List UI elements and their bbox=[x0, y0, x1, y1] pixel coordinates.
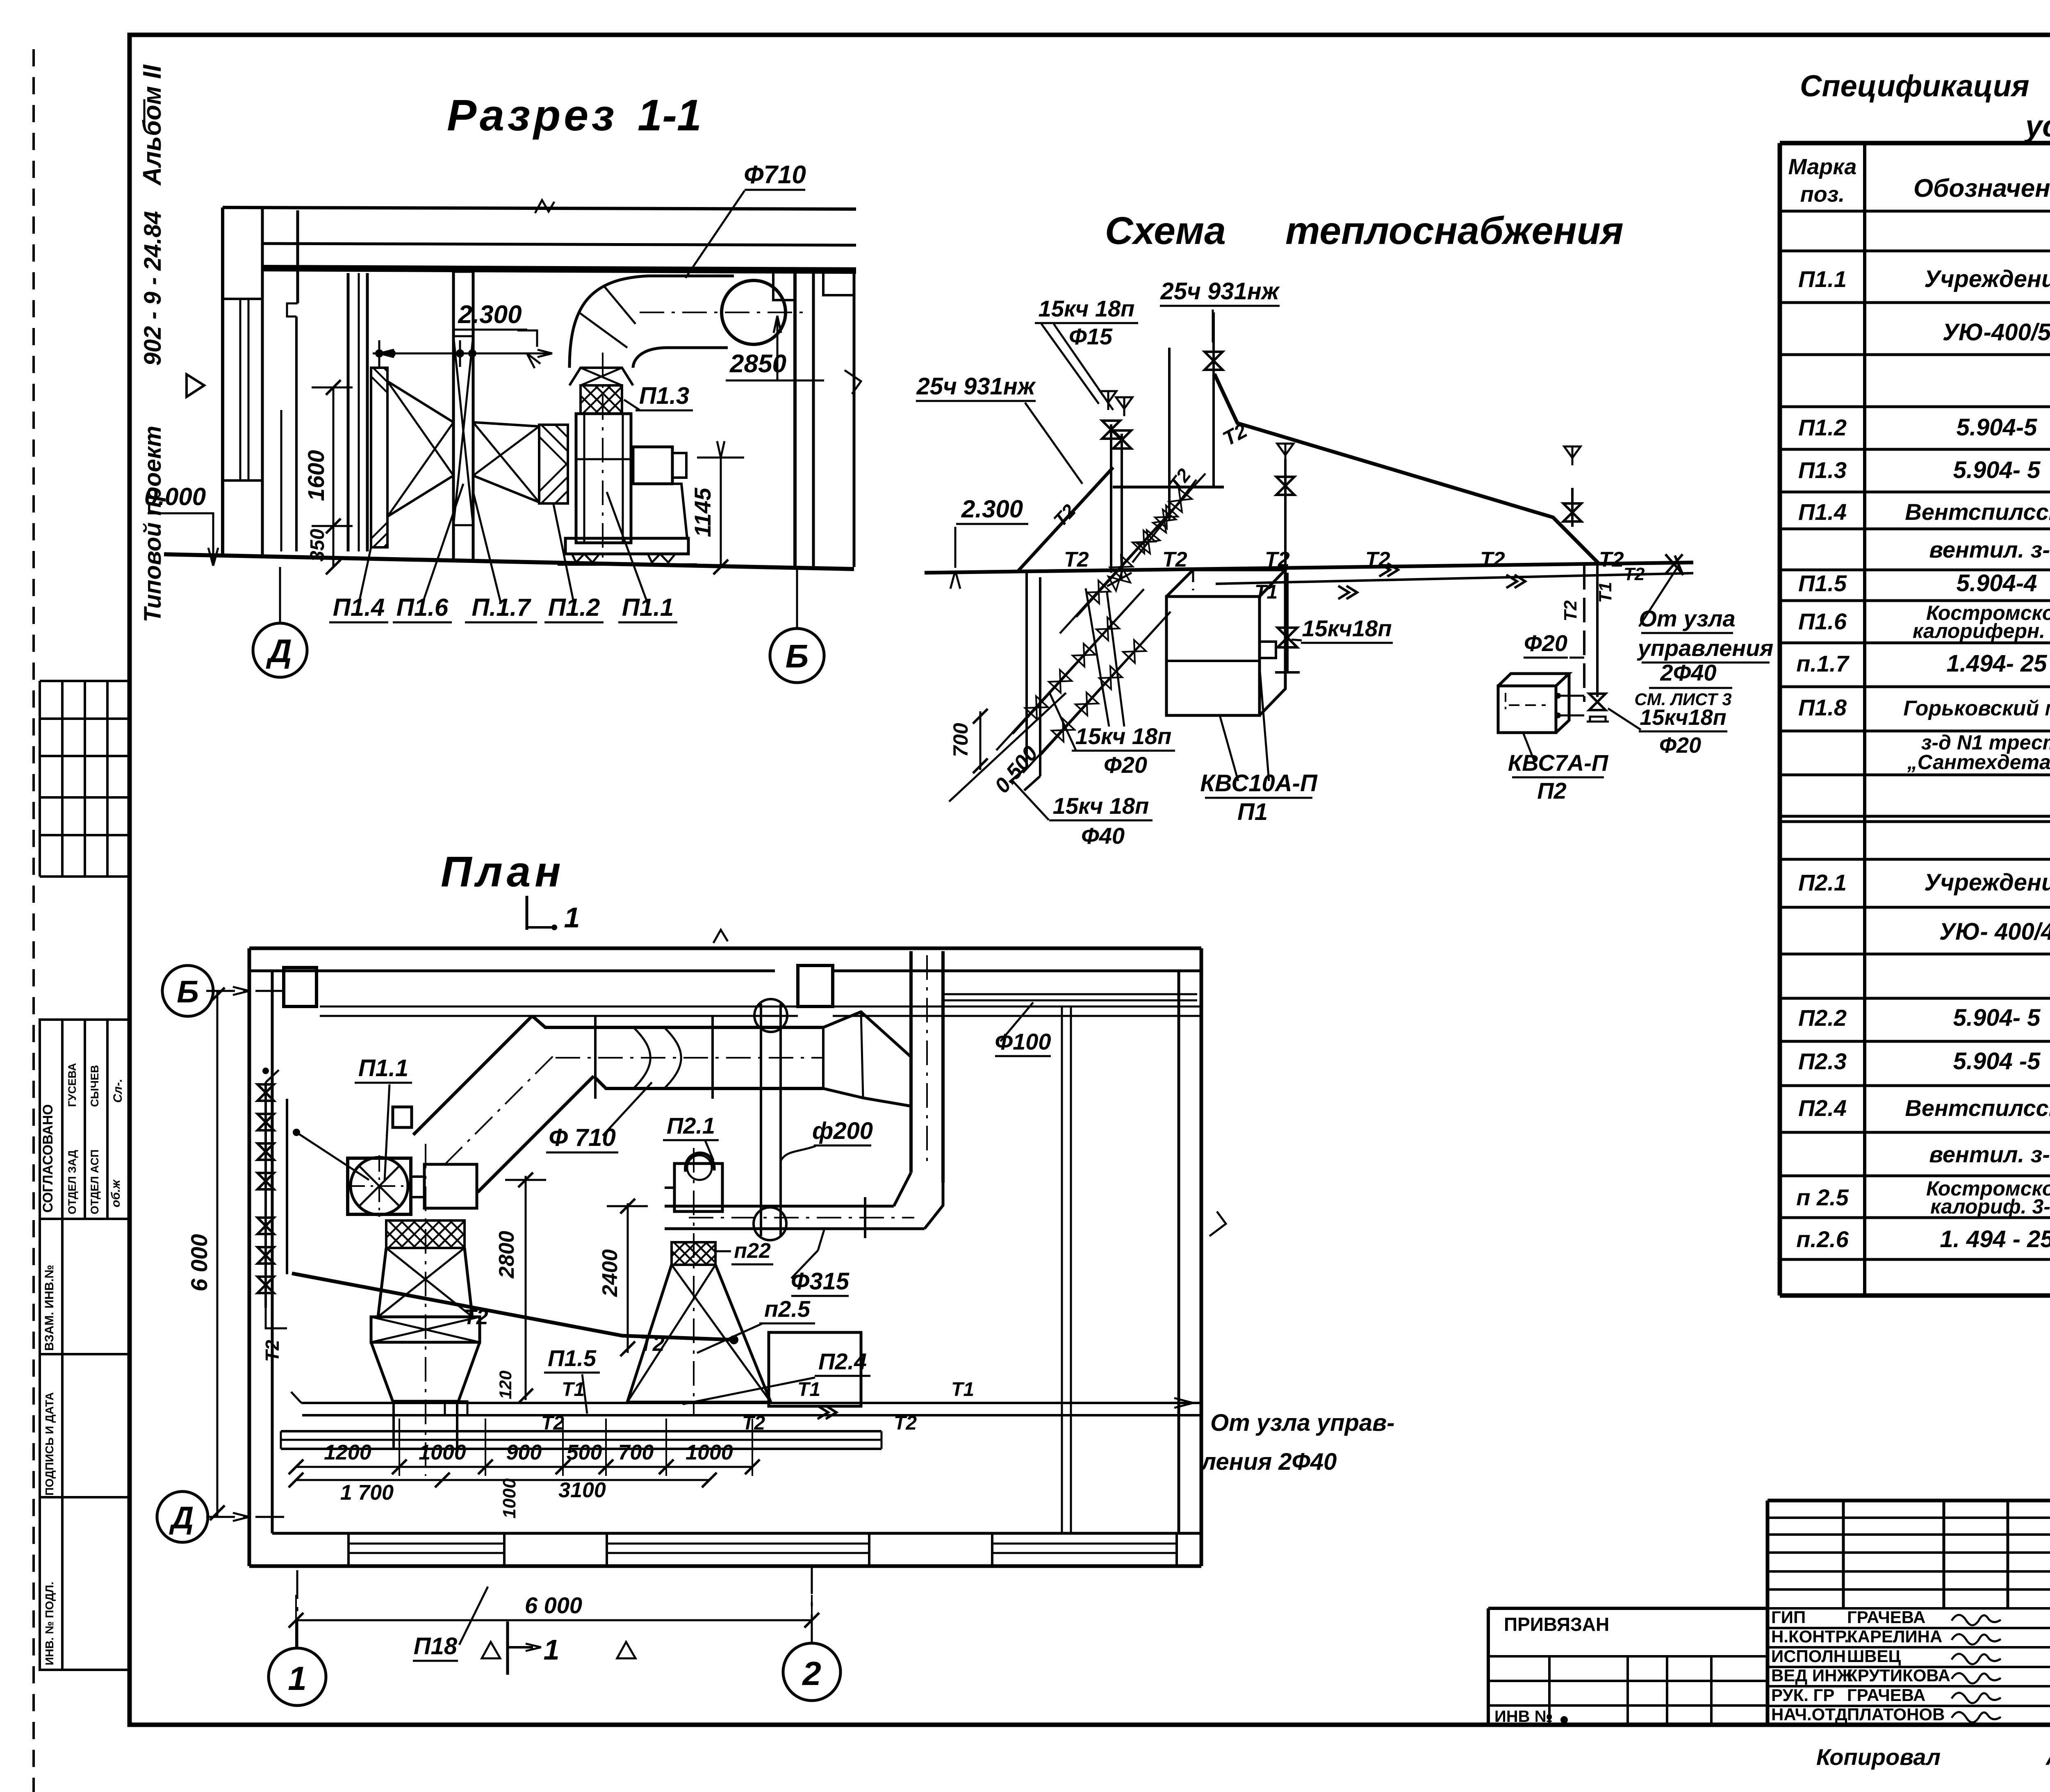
svg-text:Горьковский мех.: Горьковский мех. bbox=[1903, 697, 2050, 720]
svg-text:УЮ-400/5: УЮ-400/5 bbox=[1943, 319, 2050, 346]
signature squiggles title block bbox=[1952, 1615, 2001, 1625]
dimension 1145 bbox=[720, 458, 722, 567]
svg-text:П1.8: П1.8 bbox=[1798, 694, 1847, 720]
valve drop right of box bbox=[1286, 573, 1289, 672]
svg-text:Учреждение: Учреждение bbox=[1924, 266, 2050, 292]
title block signature rows bbox=[1768, 1607, 2050, 1610]
svg-text:калориферн. з-д: калориферн. з-д bbox=[1913, 619, 2050, 642]
svg-text:ИНВ. № ПОДЛ.: ИНВ. № ПОДЛ. bbox=[43, 1582, 56, 1665]
svg-text:Т2: Т2 bbox=[1365, 548, 1390, 572]
svg-text:П1.2: П1.2 bbox=[548, 594, 600, 621]
left pipe risers to mains bbox=[291, 1392, 301, 1403]
svg-text:Т1: Т1 bbox=[1255, 581, 1278, 603]
diagonal T2 from main to riser pair bbox=[1017, 467, 1113, 572]
svg-text:п 2.5: п 2.5 bbox=[1796, 1184, 1849, 1210]
svg-text:Ф40: Ф40 bbox=[1081, 823, 1125, 849]
svg-text:Ф20: Ф20 bbox=[1659, 733, 1701, 758]
left margin cell ИНВ № ПОДЛ bbox=[40, 1497, 130, 1670]
svg-text:Т2: Т2 bbox=[894, 1412, 917, 1434]
vertical dim 2400 bbox=[627, 1203, 629, 1353]
svg-text:П1.6: П1.6 bbox=[396, 594, 449, 621]
svg-text:ПОДПИСЬ И ДАТА: ПОДПИСЬ И ДАТА bbox=[43, 1392, 56, 1496]
wall grille box left П1.8 position bbox=[284, 968, 317, 1006]
П1 funnel lower narrowing bbox=[371, 1342, 393, 1401]
svg-text:п2.5: п2.5 bbox=[764, 1296, 811, 1322]
right end drop pair T2 T1 bbox=[1583, 565, 1585, 702]
svg-text:П1.4: П1.4 bbox=[1798, 499, 1847, 525]
svg-text:П1.3: П1.3 bbox=[639, 383, 689, 409]
vertical duct shaft bbox=[909, 951, 913, 1173]
fan П1.1 plan square with scroll circle bbox=[348, 1158, 411, 1214]
valve on drop with cap bbox=[1589, 694, 1606, 702]
svg-text:СЫЧЕВ: СЫЧЕВ bbox=[89, 1065, 101, 1107]
top wall break mark bbox=[713, 930, 728, 943]
svg-text:15кч18п: 15кч18п bbox=[1302, 615, 1392, 641]
svg-text:1600: 1600 bbox=[303, 450, 329, 501]
svg-text:902 - 9 - 24.84: 902 - 9 - 24.84 bbox=[139, 211, 166, 366]
svg-text:2.300: 2.300 bbox=[961, 495, 1023, 523]
left wall window verticals bbox=[239, 299, 241, 480]
П1 funnel bottom line bbox=[393, 1400, 458, 1403]
stub to pipes П1 bbox=[445, 1401, 467, 1415]
svg-text:Т2: Т2 bbox=[463, 1305, 488, 1329]
duct Ф315 horizontal П2 bbox=[665, 1205, 894, 1208]
plan right wall bbox=[1200, 948, 1203, 1566]
svg-text:Т2: Т2 bbox=[1064, 548, 1089, 572]
svg-text:Б: Б bbox=[786, 638, 809, 674]
svg-text:Т1: Т1 bbox=[1595, 582, 1615, 603]
svg-text:5.904- 5: 5.904- 5 bbox=[1953, 1004, 2041, 1031]
svg-text:КВС7А-П: КВС7А-П bbox=[1508, 750, 1609, 776]
svg-text:Ф710: Ф710 bbox=[744, 161, 806, 189]
svg-text:1-1: 1-1 bbox=[638, 90, 702, 140]
svg-text:П1.1: П1.1 bbox=[1798, 266, 1847, 292]
svg-text:П2.1: П2.1 bbox=[1798, 870, 1847, 895]
svg-text:ГРАЧЕВА: ГРАЧЕВА bbox=[1847, 1685, 1925, 1705]
П2.5 calorifer rect in plan bbox=[769, 1332, 861, 1406]
section mark 1 bottom bbox=[506, 1621, 509, 1675]
svg-text:Т1: Т1 bbox=[951, 1379, 974, 1400]
svg-text:Спецификация: Спецификация bbox=[1800, 69, 2029, 103]
sheet binding dashed edge line bbox=[32, 49, 35, 1792]
svg-text:П1.1: П1.1 bbox=[622, 594, 674, 621]
dimension chain upper bbox=[296, 1466, 752, 1468]
left margin cell ПОДПИСЬ И ДАТА bbox=[40, 1354, 130, 1497]
svg-text:1200: 1200 bbox=[324, 1441, 371, 1464]
diffuser cone between П1.4 and П1.7 with bracing bbox=[387, 381, 453, 422]
svg-text:700: 700 bbox=[618, 1441, 654, 1464]
svg-text:Вентспилсский: Вентспилсский bbox=[1905, 1095, 2050, 1121]
svg-text:об.ж: об.ж bbox=[109, 1179, 123, 1207]
leader lines to position labels below section bbox=[359, 547, 371, 604]
svg-text:1000: 1000 bbox=[419, 1441, 466, 1464]
svg-text:План: План bbox=[441, 848, 565, 896]
svg-text:Т2: Т2 bbox=[1049, 500, 1080, 531]
svg-text:ПЛАТОНОВ: ПЛАТОНОВ bbox=[1847, 1705, 1945, 1724]
svg-text:вентил. з-д: вентил. з-д bbox=[1929, 1141, 2050, 1167]
svg-text:„Сантехдеталь”: „Сантехдеталь” bbox=[1907, 751, 2050, 774]
elbow seam lines bbox=[605, 287, 635, 324]
svg-text:П2.4: П2.4 bbox=[1798, 1095, 1847, 1121]
duct centerline bbox=[640, 312, 808, 313]
fan motor bbox=[633, 447, 672, 484]
spec table grid bbox=[1780, 141, 2050, 146]
svg-text:ОТДЕЛ АСП: ОТДЕЛ АСП bbox=[89, 1150, 101, 1214]
svg-text:Антипова: Антипова bbox=[2045, 1744, 2050, 1770]
fan inlet flare to flexible П1.3 bbox=[569, 368, 633, 385]
svg-text:управления: управления bbox=[1637, 635, 1774, 661]
svg-text:2Ф40: 2Ф40 bbox=[1660, 660, 1716, 685]
svg-text:вентил. з-д: вентил. з-д bbox=[1929, 537, 2050, 562]
axis bubble А plan bbox=[157, 1491, 208, 1542]
svg-text:От узла: От узла bbox=[1639, 606, 1735, 631]
left wall second layer bbox=[296, 210, 299, 303]
overall dim 6000 bottom bbox=[296, 1619, 812, 1621]
pipe Ф100 thin at top right bbox=[943, 1000, 1197, 1002]
svg-text:П1: П1 bbox=[1237, 799, 1268, 825]
axis bubble 1 bbox=[269, 1648, 326, 1705]
vertical dim 2800 bbox=[525, 1176, 527, 1400]
riser 25ч931нж with valve bbox=[1212, 312, 1215, 487]
foundation channel band bbox=[281, 1430, 881, 1432]
left pilaster bbox=[347, 273, 350, 551]
svg-text:15кч 18п: 15кч 18п bbox=[1039, 296, 1135, 321]
left margin cell ВЗАМ ИНВ bbox=[40, 1219, 130, 1354]
right riser with vents bbox=[1571, 488, 1574, 527]
duct Ф710 horizontal run bbox=[532, 1016, 823, 1027]
svg-text:Б: Б bbox=[177, 975, 199, 1009]
duct arc seams bbox=[633, 1027, 650, 1088]
bowtie chain mid riser to branch bbox=[1132, 480, 1196, 562]
title block outer bbox=[1766, 1501, 1770, 1725]
vertical pipe pair right side bbox=[1061, 1006, 1063, 1533]
svg-text:Марка: Марка bbox=[1788, 155, 1857, 179]
duct centerline diagonal and horizontal bbox=[445, 1052, 558, 1164]
svg-text:ф200: ф200 bbox=[812, 1118, 873, 1144]
svg-text:Альбом II: Альбом II bbox=[138, 64, 166, 186]
svg-text:ВЗАМ. ИНВ.№: ВЗАМ. ИНВ.№ bbox=[43, 1265, 56, 1351]
vertical dim 6000 left bbox=[216, 991, 219, 1517]
duct segment ticks bbox=[594, 1017, 597, 1099]
svg-text:Т1: Т1 bbox=[562, 1379, 585, 1400]
upper small grid of title block bbox=[1768, 1516, 2050, 1519]
channel box below funnel П1 bbox=[392, 1401, 395, 1449]
svg-text:ИСПОЛН: ИСПОЛН bbox=[1771, 1646, 1846, 1666]
svg-text:ления 2Ф40: ления 2Ф40 bbox=[1200, 1448, 1337, 1475]
svg-text:Т2: Т2 bbox=[262, 1340, 283, 1362]
svg-text:Т2: Т2 bbox=[1219, 419, 1251, 450]
svg-text:Т2: Т2 bbox=[1162, 548, 1187, 572]
svg-text:1 700: 1 700 bbox=[340, 1481, 394, 1505]
svg-text:Ф20: Ф20 bbox=[1524, 630, 1567, 656]
fan centerline vertical bbox=[602, 353, 604, 558]
flow chevrons on mains bbox=[1379, 563, 1390, 576]
vertical line near box bbox=[1168, 348, 1171, 521]
svg-text:Ф20: Ф20 bbox=[1104, 752, 1147, 778]
bowtie chain lower A bbox=[996, 589, 1144, 750]
shaft elbow to Ф315 duct bbox=[894, 1173, 911, 1206]
riser 3 with valve bbox=[1284, 459, 1287, 573]
svg-text:6 000: 6 000 bbox=[525, 1592, 582, 1618]
svg-text:СОГЛАСОВАНО: СОГЛАСОВАНО bbox=[40, 1104, 56, 1213]
left margin approval block bbox=[40, 1020, 130, 1219]
svg-text:Н.КОНТР.: Н.КОНТР. bbox=[1771, 1627, 1849, 1646]
fan П2.1 plan bbox=[674, 1164, 722, 1211]
svg-text:калориф. 3-д: калориф. 3-д bbox=[1930, 1195, 2050, 1218]
svg-text:1.494- 25: 1.494- 25 bbox=[1946, 650, 2047, 677]
svg-text:поз.: поз. bbox=[1800, 182, 1845, 207]
svg-text:Ф15: Ф15 bbox=[1069, 323, 1113, 349]
svg-text:П2.2: П2.2 bbox=[1798, 1005, 1847, 1031]
svg-text:5.904- 5: 5.904- 5 bbox=[1953, 457, 2041, 483]
svg-text:25ч 931нж: 25ч 931нж bbox=[916, 373, 1036, 400]
schema pipe T1 horizontal bbox=[1216, 573, 1693, 584]
horizontal duct to circle end bbox=[648, 275, 734, 278]
svg-text:П2.4: П2.4 bbox=[818, 1348, 867, 1374]
svg-text:П1.5: П1.5 bbox=[1798, 570, 1847, 596]
svg-text:ОТДЕЛ ЗАД: ОТДЕЛ ЗАД bbox=[66, 1150, 78, 1214]
axis line А bbox=[206, 1516, 287, 1518]
section floor line bbox=[164, 554, 854, 569]
svg-text:Ф315: Ф315 bbox=[791, 1268, 850, 1295]
svg-text:КАРЕЛИНА: КАРЕЛИНА bbox=[1847, 1627, 1942, 1646]
right slab edge steps bbox=[823, 267, 854, 295]
plan left wall bbox=[248, 948, 251, 1566]
axis bubble А section bbox=[253, 623, 307, 677]
axis bubble Б section bbox=[770, 628, 824, 683]
svg-text:Вентспилсский: Вентспилсский bbox=[1905, 499, 2050, 525]
filter frame П1.7 vertical bbox=[453, 271, 473, 560]
thick T2 distribution diagonal to right bbox=[1214, 374, 1599, 564]
left riser pipes with valve string bbox=[264, 1082, 267, 1308]
svg-text:Учреждение: Учреждение bbox=[1924, 869, 2050, 896]
axis line Б bbox=[206, 990, 287, 992]
svg-text:2800: 2800 bbox=[495, 1231, 519, 1279]
ceiling break mark bbox=[535, 200, 554, 213]
plan bottom wall with windows bbox=[249, 1564, 1201, 1568]
svg-text:Т2: Т2 bbox=[1480, 548, 1505, 572]
svg-text:П18: П18 bbox=[414, 1633, 458, 1660]
duct end circle Ф710 bbox=[722, 280, 786, 344]
svg-text:п.2.6: п.2.6 bbox=[1796, 1226, 1849, 1252]
svg-text:П1.6: П1.6 bbox=[1798, 608, 1847, 634]
dim 700 and 0.500 bbox=[979, 711, 982, 770]
stub to wall pipes bbox=[266, 1308, 287, 1328]
svg-text:Схема: Схема bbox=[1105, 209, 1226, 253]
duct transition to vertical shaft bbox=[823, 1012, 911, 1057]
thick Т2 diagonal across plan bbox=[292, 1273, 734, 1340]
fan discharge elbow duct bbox=[569, 276, 648, 368]
svg-text:1000: 1000 bbox=[499, 1478, 519, 1519]
П1 unit centerline bbox=[425, 1144, 426, 1476]
svg-text:Т2: Т2 bbox=[1560, 600, 1581, 622]
fan П1.1 housing bbox=[576, 414, 631, 543]
bowtie chain lower B bbox=[1023, 612, 1171, 773]
leaders from Ф20 label up to chains bbox=[1086, 588, 1109, 726]
survey triangles bbox=[482, 1642, 500, 1658]
svg-text:5.904-5: 5.904-5 bbox=[1957, 414, 2037, 441]
svg-text:Обозначение: Обозначение bbox=[1913, 174, 2050, 203]
svg-text:1: 1 bbox=[544, 1634, 560, 1666]
riser ф200 vertical bbox=[760, 1004, 762, 1236]
svg-text:1. 494 - 25: 1. 494 - 25 bbox=[1940, 1226, 2050, 1252]
transition cone П1.7 to flexible insert with X bbox=[473, 422, 539, 426]
duct Ф710 diagonal from fan bbox=[413, 1016, 532, 1135]
КВС7А-П box П2 bbox=[1498, 686, 1556, 733]
svg-text:ГИП: ГИП bbox=[1771, 1608, 1806, 1627]
svg-text:Сл-.: Сл-. bbox=[111, 1079, 125, 1103]
svg-text:теплоснабжения: теплоснабжения bbox=[1285, 209, 1624, 253]
pipes along top wall bbox=[320, 1006, 798, 1008]
svg-text:Типовой проект: Типовой проект bbox=[139, 426, 166, 622]
privyazan box bbox=[1487, 1608, 1490, 1725]
wall break slash right bbox=[845, 370, 861, 394]
svg-text:РУК. ГР: РУК. ГР bbox=[1771, 1685, 1834, 1705]
svg-text:5.904-4: 5.904-4 bbox=[1957, 570, 2037, 597]
svg-text:П2.3: П2.3 bbox=[1798, 1048, 1847, 1074]
svg-text:От узла управ-: От узла управ- bbox=[1210, 1409, 1395, 1436]
svg-text:ШВЕЦ: ШВЕЦ bbox=[1847, 1646, 1901, 1666]
svg-text:П1.2: П1.2 bbox=[1798, 414, 1847, 440]
svg-text:ГРАЧЕВА: ГРАЧЕВА bbox=[1847, 1608, 1925, 1627]
section mark 1 top bbox=[526, 896, 528, 930]
axis bubble 2 bbox=[783, 1643, 840, 1701]
wall duct box at riser bbox=[798, 965, 833, 1006]
svg-text:КВС10А-П: КВС10А-П bbox=[1200, 770, 1318, 797]
small box at fan top left bbox=[393, 1107, 412, 1127]
svg-text:П1.5: П1.5 bbox=[548, 1345, 597, 1371]
svg-text:900: 900 bbox=[506, 1441, 542, 1464]
motor support stand bbox=[634, 484, 687, 538]
svg-text:700: 700 bbox=[949, 723, 972, 757]
vertical dimension 1600/350 bbox=[333, 387, 335, 567]
П1 funnel upper with X bbox=[378, 1248, 386, 1317]
svg-text:ГУСЕВА: ГУСЕВА bbox=[66, 1063, 78, 1107]
fan motor box plan bbox=[424, 1164, 477, 1208]
schema main pipe T2 horizontal bbox=[925, 562, 1693, 573]
svg-text:Д: Д bbox=[169, 1501, 194, 1535]
bottom wall window strips bbox=[348, 1543, 504, 1545]
riser pair with valves and vents bbox=[1110, 424, 1112, 573]
svg-text:2: 2 bbox=[802, 1655, 821, 1692]
upper dimension line with dots bbox=[373, 353, 552, 355]
plan top wall bbox=[249, 947, 1201, 950]
svg-text:2.300: 2.300 bbox=[458, 301, 522, 329]
fan base frame with vibro springs bbox=[565, 538, 688, 554]
svg-text:П.1.7: П.1.7 bbox=[471, 594, 531, 621]
svg-text:120: 120 bbox=[496, 1371, 515, 1399]
svg-text:3100: 3100 bbox=[558, 1478, 606, 1502]
П2 funnel with X brace bbox=[627, 1265, 672, 1402]
cluster vertical risers down bbox=[1025, 573, 1028, 767]
svg-text:1: 1 bbox=[288, 1660, 307, 1697]
П2.1 inlet stub bbox=[665, 1186, 674, 1189]
svg-text:П2: П2 bbox=[1537, 778, 1566, 804]
svg-text:1: 1 bbox=[564, 902, 580, 934]
svg-text:15кч 18п: 15кч 18п bbox=[1053, 793, 1149, 819]
thin mid line bbox=[280, 410, 282, 551]
svg-text:Д: Д bbox=[266, 633, 292, 669]
svg-text:Т2: Т2 bbox=[1624, 564, 1645, 584]
svg-text:Копировал: Копировал bbox=[1816, 1744, 1941, 1770]
chain small below main line bbox=[1107, 573, 1132, 586]
svg-text:Т2: Т2 bbox=[640, 1332, 665, 1356]
dimension chain lower bbox=[296, 1479, 709, 1481]
svg-text:п22: п22 bbox=[734, 1239, 771, 1263]
svg-text:УЮ- 400/4: УЮ- 400/4 bbox=[1939, 918, 2050, 945]
П2 unit centerline bbox=[693, 1148, 695, 1414]
svg-text:1145: 1145 bbox=[690, 487, 715, 537]
svg-text:6 000: 6 000 bbox=[186, 1234, 212, 1291]
svg-text:5.904 -5: 5.904 -5 bbox=[1953, 1048, 2041, 1075]
svg-text:КРУТИКОВА: КРУТИКОВА bbox=[1847, 1666, 1950, 1685]
svg-text:25ч 931нж: 25ч 931нж bbox=[1160, 278, 1280, 305]
svg-text:п.1.7: п.1.7 bbox=[1796, 651, 1850, 676]
svg-text:Ф 710: Ф 710 bbox=[549, 1124, 616, 1151]
svg-text:2400: 2400 bbox=[598, 1249, 622, 1297]
П1 calorifer box with X bbox=[371, 1317, 480, 1342]
svg-text:500: 500 bbox=[567, 1441, 602, 1464]
svg-text:ПРИВЯЗАН: ПРИВЯЗАН bbox=[1504, 1614, 1609, 1635]
svg-text:Ф100: Ф100 bbox=[995, 1029, 1051, 1054]
svg-text:П2.1: П2.1 bbox=[667, 1113, 715, 1139]
svg-text:0.000: 0.000 bbox=[144, 483, 206, 510]
marker Д flag at left bbox=[187, 374, 204, 397]
svg-text:Т2: Т2 bbox=[1599, 548, 1624, 572]
branch pipe from valves to unit bbox=[296, 1132, 369, 1180]
main end crossing marks bbox=[1665, 554, 1683, 574]
svg-text:ВЕД ИНЖ: ВЕД ИНЖ bbox=[1771, 1666, 1853, 1685]
section ceiling slab lines bbox=[223, 207, 856, 209]
svg-text:Т1: Т1 bbox=[797, 1379, 820, 1400]
svg-text:15кч 18п: 15кч 18п bbox=[1075, 723, 1172, 749]
stubs from box to drop pipes bbox=[1556, 695, 1584, 697]
section left wall bbox=[221, 207, 224, 554]
wall break mark right bbox=[1209, 1211, 1226, 1236]
bowtie chain upper C bbox=[1060, 474, 1205, 633]
svg-text:П1.4: П1.4 bbox=[333, 594, 385, 621]
svg-text:1000: 1000 bbox=[686, 1441, 733, 1464]
svg-text:ИНВ №: ИНВ № bbox=[1494, 1708, 1553, 1726]
left margin upper blank grid bbox=[40, 680, 130, 682]
svg-text:НАЧ.ОТД: НАЧ.ОТД bbox=[1771, 1705, 1847, 1724]
svg-text:установок: установок bbox=[2024, 109, 2050, 143]
branch horizontal line bbox=[1113, 486, 1224, 489]
axis bubble Б plan bbox=[162, 965, 213, 1016]
right wall of section bbox=[793, 267, 797, 567]
svg-text:П1.3: П1.3 bbox=[1798, 457, 1847, 483]
svg-text:П1.1: П1.1 bbox=[358, 1055, 408, 1082]
svg-text:15кч18п: 15кч18п bbox=[1640, 705, 1726, 730]
bottom pipes Т1 Т2 bbox=[301, 1402, 1201, 1404]
calorifer box КВС10А-П bbox=[1166, 597, 1260, 715]
svg-text:Разрез: Разрез bbox=[447, 90, 617, 140]
